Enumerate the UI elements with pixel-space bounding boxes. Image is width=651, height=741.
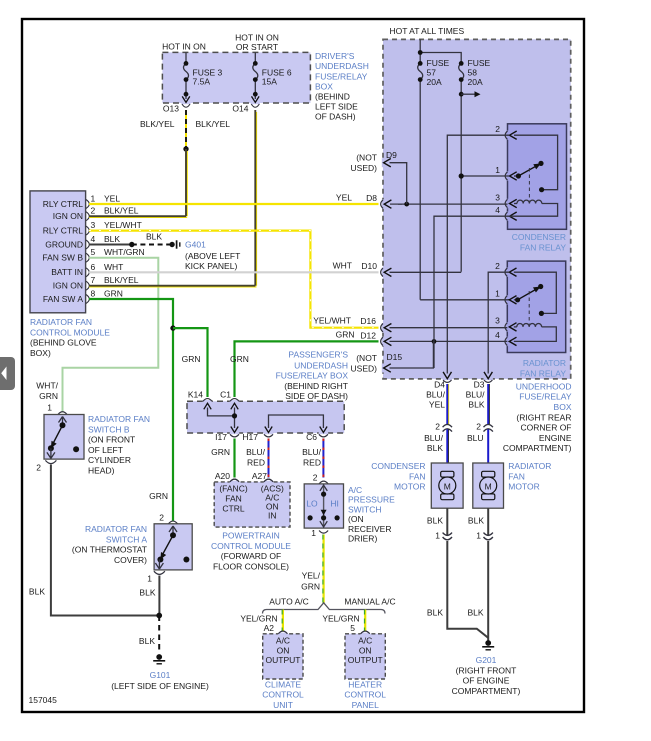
connector 1 (pressure switch) [319,531,328,534]
connector O13 [182,104,190,107]
svg-text:CONTROL MODULE: CONTROL MODULE [30,327,110,337]
svg-text:D9: D9 [386,150,397,160]
svg-text:COVER): COVER) [114,555,147,565]
heater control panel box [345,634,385,679]
svg-text:FAN SW A: FAN SW A [43,294,83,304]
wire pin7 BLK/YEL to O14 riser [89,286,257,288]
connector D3 [484,372,492,379]
svg-text:(ABOVE LEFT: (ABOVE LEFT [185,251,240,261]
svg-text:BLK/YEL: BLK/YEL [104,206,139,216]
relay mechanical link [528,291,530,324]
svg-text:HOT AT ALL TIMES: HOT AT ALL TIMES [390,26,465,36]
wire BLK/YEL from O14 down to pin7 row [256,112,258,286]
svg-text:FAN RELAY: FAN RELAY [520,368,566,378]
svg-text:K14: K14 [188,390,203,400]
svg-text:LO: LO [306,499,318,509]
svg-text:ENGINE: ENGINE [539,433,572,443]
climate control unit box [263,634,303,679]
svg-text:BLK/YEL: BLK/YEL [140,119,175,129]
svg-text:FUSE: FUSE [468,58,491,68]
svg-text:3: 3 [91,220,96,230]
svg-text:DRIVER'S: DRIVER'S [315,51,355,61]
wire YEL/GRN pressure switch to brace [323,535,325,604]
svg-text:GRN: GRN [182,354,201,364]
relay pin 3 + coil [505,323,507,331]
svg-text:FUSE/RELAY BOX: FUSE/RELAY BOX [276,371,349,381]
wire BLK dashed to G101 [158,616,160,654]
condenser fan motor box [431,463,463,508]
wire YEL/GRN to heater control panel [364,610,366,631]
wire radiator relay pin2 to D3 [488,272,509,373]
ground G101 [156,654,162,660]
svg-text:G201: G201 [476,655,497,665]
pin arcs 1-8 [86,200,89,304]
svg-text:CONDENSER: CONDENSER [371,461,425,471]
svg-text:SWITCH: SWITCH [348,504,382,514]
junction on BLK/YEL [183,146,188,151]
condenser fan relay box [508,124,567,230]
wire BLU/BLK D3 to connector [487,384,489,425]
inline connector 2 (right) [484,424,493,431]
svg-text:157045: 157045 [29,695,58,705]
radiator fan switch A box [154,524,192,570]
svg-text:I17: I17 [215,432,227,442]
wire YEL/GRN to climate control unit [282,610,284,631]
svg-text:BLK: BLK [468,516,484,526]
svg-text:MOTOR: MOTOR [394,482,425,492]
wire BLK switch A to junction [158,576,160,616]
svg-text:RED: RED [247,457,265,467]
wire BLK/YEL from O13 (dashed) to junction [185,110,187,149]
svg-text:FUSE: FUSE [427,58,450,68]
svg-text:USED): USED) [351,163,378,173]
connector D10 [381,268,383,276]
radiator fan relay box [507,261,565,352]
svg-text:(FANC): (FANC) [219,483,248,493]
connector D15 (not used) [384,364,391,372]
svg-text:BLU/: BLU/ [466,390,486,400]
svg-text:GROUND: GROUND [45,239,83,249]
svg-text:1: 1 [47,403,52,413]
wire pin6 WHT to D10 [89,271,379,273]
svg-text:BLU/: BLU/ [424,433,444,443]
svg-text:PANEL: PANEL [352,700,380,710]
svg-text:2: 2 [435,422,440,432]
fuse 58 20A [459,63,464,271]
svg-text:O14: O14 [232,104,248,114]
wire BLU connector to radiator motor [487,429,489,473]
wire D16 to radiator relay pin3 [390,327,508,329]
wire D8 to condenser relay pin3 [398,203,508,205]
svg-text:GRN: GRN [230,354,249,364]
svg-text:FAN SW B: FAN SW B [42,253,83,263]
svg-text:BLK/YEL: BLK/YEL [104,275,139,285]
svg-text:HEAD): HEAD) [88,466,115,476]
svg-text:D8: D8 [366,193,377,203]
svg-text:1: 1 [476,531,481,541]
svg-text:(BEHIND GLOVE: (BEHIND GLOVE [30,338,97,348]
wire BLK condenser motor down [446,508,448,535]
relay pin 4 [505,337,507,345]
svg-text:58: 58 [468,68,478,78]
svg-text:RADIATOR FAN: RADIATOR FAN [85,524,147,534]
svg-text:(FORWARD OF: (FORWARD OF [221,551,281,561]
svg-text:A20: A20 [215,471,230,481]
svg-text:LEFT SIDE: LEFT SIDE [315,102,358,112]
radiator fan control module box [30,191,86,313]
svg-text:BLK: BLK [139,588,155,598]
branch arrow under fuse 58 [459,92,464,97]
svg-text:M: M [444,481,451,491]
svg-text:1: 1 [435,531,440,541]
wire BLK radiator motor to G201 [487,541,489,641]
fuse 6 15A [253,52,258,99]
svg-text:ON: ON [359,646,372,656]
connector 2 (pressure switch) [319,481,328,484]
svg-text:A/C: A/C [358,636,372,646]
svg-text:SWITCH A: SWITCH A [106,534,147,544]
svg-text:6: 6 [91,262,96,272]
wire condenser relay pin2 to D4 [447,135,509,373]
svg-text:(NOT: (NOT [356,353,377,363]
svg-text:GRN: GRN [301,581,320,591]
wire BLU/RED H17 to A27 [268,439,270,478]
internal bus H17-C6 [269,415,324,428]
svg-text:IN: IN [268,510,277,520]
relay pin 3 + coil [505,199,507,207]
svg-text:FLOOR CONSOLE): FLOOR CONSOLE) [213,561,289,571]
svg-text:1: 1 [147,574,152,584]
connector C1 [230,399,239,402]
svg-text:WHT: WHT [333,261,352,271]
svg-text:1: 1 [495,165,500,175]
svg-text:(BEHIND RIGHT: (BEHIND RIGHT [284,381,348,391]
svg-text:7: 7 [91,275,96,285]
pressure switch internals [323,484,325,528]
fuse 57 20A [418,63,423,299]
svg-text:IGN ON: IGN ON [53,211,83,221]
svg-text:GRN: GRN [149,491,168,501]
svg-text:BLU/: BLU/ [426,390,446,400]
svg-text:RADIATOR: RADIATOR [523,358,566,368]
svg-text:D3: D3 [474,380,485,390]
wire BLK radiator motor down [487,508,489,535]
svg-text:WHT/GRN: WHT/GRN [104,247,145,257]
wire GRN I17 to A20 [233,439,235,478]
svg-text:OF DASH): OF DASH) [315,112,356,122]
svg-text:BLK: BLK [427,608,443,618]
svg-text:3: 3 [495,316,500,326]
svg-text:WHT/: WHT/ [36,381,58,391]
connector A2 [278,631,287,634]
connector H17 exit [265,427,272,433]
svg-text:(NOT: (NOT [356,153,377,163]
svg-text:OF ENGINE: OF ENGINE [463,676,510,686]
relay pin 1 + switch arm [505,172,507,180]
svg-text:2: 2 [91,206,96,216]
svg-text:BLK: BLK [146,232,162,242]
connector D9 (not used) [384,159,391,167]
svg-text:G101: G101 [150,670,171,680]
svg-text:RADIATOR FAN: RADIATOR FAN [88,414,150,424]
inline connector 1 (left) [443,533,452,540]
svg-text:3: 3 [495,192,500,202]
svg-text:OUTPUT: OUTPUT [348,655,383,665]
svg-text:HOT IN ON: HOT IN ON [162,42,206,52]
svg-text:GRN: GRN [104,289,123,299]
svg-text:2: 2 [495,261,500,271]
svg-text:BLK: BLK [427,516,443,526]
svg-text:GRN: GRN [39,391,58,401]
svg-text:2: 2 [36,463,41,473]
svg-text:DRIER): DRIER) [348,534,377,544]
connector C6 exit [320,427,327,433]
svg-text:CORNER OF: CORNER OF [521,423,572,433]
driver's underdash fuse/relay box [162,52,310,103]
svg-text:(ON FRONT: (ON FRONT [88,435,135,445]
wire condenser relay pin4 to D12/D15 junction [434,216,514,368]
svg-text:2: 2 [313,473,318,483]
svg-text:BLU/: BLU/ [302,447,322,457]
svg-text:FAN RELAY: FAN RELAY [520,242,566,252]
svg-text:(RIGHT REAR: (RIGHT REAR [516,412,571,422]
svg-text:5: 5 [350,623,355,633]
wire BLK switch B to ground junction [51,465,159,616]
passenger's underdash fuse/relay box [187,401,344,433]
svg-text:RLY CTRL: RLY CTRL [43,199,84,209]
svg-text:BLK: BLK [468,399,484,409]
connector 1 (switch B) [58,412,67,415]
svg-text:HEATER: HEATER [348,679,382,689]
wire BLK/YEL junction down to pin2 row [186,151,188,216]
svg-text:BLK: BLK [29,587,45,597]
svg-text:(ON: (ON [348,514,364,524]
powertrain control module box [214,482,290,527]
svg-text:BATT IN: BATT IN [51,267,83,277]
svg-text:RLY CTRL: RLY CTRL [43,225,84,235]
connector D4 [443,372,451,379]
svg-text:RED: RED [303,457,321,467]
svg-text:(ON THERMOSTAT: (ON THERMOSTAT [72,545,147,555]
svg-text:YEL/WHT: YEL/WHT [104,220,142,230]
svg-text:BLU/: BLU/ [246,447,266,457]
relay pin 4 [505,212,507,220]
svg-text:57: 57 [427,68,437,78]
svg-text:YEL/GRN: YEL/GRN [240,614,277,624]
feed wire from top into fuses [420,39,461,63]
ground G201 [485,640,491,646]
svg-text:AUTO A/C: AUTO A/C [269,597,309,607]
svg-text:FAN: FAN [409,471,426,481]
svg-text:YEL: YEL [429,399,445,409]
svg-text:20A: 20A [468,77,483,87]
svg-text:4: 4 [495,330,500,340]
wire BLU/RED C6 to pressure switch [322,439,324,478]
svg-text:D10: D10 [361,261,377,271]
wire D10 to fuse58 drop [390,271,462,273]
svg-text:H17: H17 [242,432,258,442]
svg-text:BLK: BLK [139,636,155,646]
svg-text:A/C: A/C [348,485,362,495]
svg-text:CONTROL MODULE: CONTROL MODULE [211,541,291,551]
svg-text:M: M [485,481,492,491]
svg-text:YEL: YEL [336,193,352,203]
svg-text:(BEHIND: (BEHIND [315,92,350,102]
svg-text:FAN: FAN [508,471,525,481]
svg-text:SWITCH B: SWITCH B [88,424,130,434]
connector 2 (switch A) [169,521,178,524]
svg-text:C1: C1 [220,390,231,400]
wire condenser relay pin1 from fuse58 [461,175,509,177]
relay pin 2 [505,268,507,276]
svg-text:USED): USED) [351,363,378,373]
svg-text:FAN: FAN [225,493,242,503]
wire pin1 YEL to D8 [89,203,379,205]
svg-text:CONTROL: CONTROL [262,690,304,700]
svg-text:UNDERDASH: UNDERDASH [315,61,369,71]
svg-text:D16: D16 [360,316,376,326]
svg-text:5: 5 [91,247,96,257]
svg-text:(RIGHT FRONT: (RIGHT FRONT [456,665,517,675]
svg-text:FUSE/RELAY: FUSE/RELAY [315,72,368,82]
svg-text:WHT: WHT [104,262,123,272]
svg-text:RADIATOR: RADIATOR [508,461,551,471]
svg-text:YEL/GRN: YEL/GRN [322,614,359,624]
svg-text:BOX: BOX [315,82,333,92]
svg-text:1: 1 [495,289,500,299]
connector 5 [361,631,370,634]
underhood fuse/relay box [383,39,571,379]
wire pin4 BLK to G401 [89,244,132,246]
svg-text:CONTROL: CONTROL [344,690,386,700]
condenser motor symbol [441,471,454,477]
radiator motor symbol [482,471,495,477]
wire BLU/YEL D4 to connector [448,384,450,425]
wire GRN C1 to D12 [235,341,379,397]
svg-text:7.5A: 7.5A [193,77,211,87]
fuse 3 7.5A [184,52,189,99]
svg-text:UNIT: UNIT [273,700,293,710]
svg-text:ON: ON [277,646,290,656]
svg-text:IGN ON: IGN ON [53,281,83,291]
svg-text:COMPARTMENT): COMPARTMENT) [452,686,521,696]
svg-text:2: 2 [476,422,481,432]
ground G401 [176,240,178,248]
svg-text:MOTOR: MOTOR [508,482,539,492]
svg-text:YEL: YEL [104,194,120,204]
wire pin3 YEL/WHT to D16 [89,231,379,328]
svg-text:UNDERDASH: UNDERDASH [294,360,348,370]
svg-text:BLK: BLK [104,234,120,244]
svg-text:MANUAL A/C: MANUAL A/C [344,597,395,607]
svg-text:OUTPUT: OUTPUT [266,655,301,665]
junction GRN branch [170,325,175,330]
inline connector 1 (right) [484,533,493,540]
svg-text:CONDENSER: CONDENSER [512,232,566,242]
connector K14 [203,399,212,402]
svg-text:YEL/: YEL/ [302,571,321,581]
svg-text:D4: D4 [434,380,445,390]
svg-text:PRESSURE: PRESSURE [348,495,395,505]
connector A27 [264,479,273,482]
connector D16 [381,324,383,332]
svg-text:BOX: BOX [554,402,572,412]
svg-text:CYLINDER: CYLINDER [88,455,131,465]
svg-text:G401: G401 [185,239,206,249]
relay pin 1 + switch arm [505,296,507,304]
svg-text:OR START: OR START [236,42,278,52]
svg-text:BLU: BLU [467,433,484,443]
svg-text:8: 8 [91,289,96,299]
svg-text:GRN: GRN [336,330,355,340]
svg-text:CTRL: CTRL [222,503,244,513]
svg-text:SIDE OF DASH): SIDE OF DASH) [285,391,348,401]
inline connector 2 (left) [443,424,452,431]
brace split AUTO/MANUAL [263,603,386,614]
wire D12 to radiator relay pin4 [390,340,508,342]
svg-text:20A: 20A [427,77,442,87]
connector I17 exit [231,427,238,433]
svg-text:2: 2 [159,513,164,523]
svg-text:RECEIVER: RECEIVER [348,524,391,534]
svg-text:POWERTRAIN: POWERTRAIN [222,531,279,541]
wire GRN branch to K14 [173,328,208,397]
connector A20 [230,479,239,482]
wire fuse57 to radiator relay pin1 [420,299,509,301]
svg-text:4: 4 [91,234,96,244]
svg-text:A/C: A/C [276,636,290,646]
svg-text:(LEFT SIDE OF ENGINE): (LEFT SIDE OF ENGINE) [111,681,209,691]
connector 2 (switch B) [45,460,56,463]
svg-text:GRN: GRN [211,447,230,457]
switch B internals [59,417,67,426]
svg-text:2: 2 [495,124,500,134]
svg-text:BLK: BLK [427,443,443,453]
svg-text:1: 1 [311,528,316,538]
svg-text:BLK/YEL: BLK/YEL [196,119,231,129]
svg-text:OF LEFT: OF LEFT [88,445,123,455]
UI back tab [0,357,15,390]
svg-text:BOX): BOX) [30,348,51,358]
wire BLU/BLK connector to condenser motor [446,429,448,473]
svg-text:15A: 15A [262,77,277,87]
connector D8 [381,200,383,208]
svg-text:1: 1 [91,194,96,204]
relay pin 2 [505,131,507,139]
svg-text:CLIMATE: CLIMATE [265,679,302,689]
svg-text:O13: O13 [163,104,179,114]
wire BLK condenser motor to G201 [447,541,488,638]
connector O14 [251,104,259,107]
svg-text:A27: A27 [252,471,267,481]
relay mechanical link [528,168,530,201]
svg-text:PASSENGER'S: PASSENGER'S [288,350,348,360]
svg-text:4: 4 [495,205,500,215]
svg-text:A2: A2 [264,623,275,633]
svg-text:HI: HI [330,499,339,509]
radiator fan motor box [473,463,504,508]
svg-text:D12: D12 [360,331,376,341]
wire pin8 GRN down to switch A with branch [89,299,173,521]
svg-text:D15: D15 [387,352,403,362]
svg-text:UNDERHOOD: UNDERHOOD [516,381,572,391]
radiator fan switch B box [44,415,84,460]
svg-text:KICK PANEL): KICK PANEL) [185,261,237,271]
connector 1 (switch A) [154,571,165,574]
wire pin5 WHT/GRN to switch B [63,258,159,412]
a/c pressure switch box [304,484,343,528]
connector D12 [381,337,383,345]
